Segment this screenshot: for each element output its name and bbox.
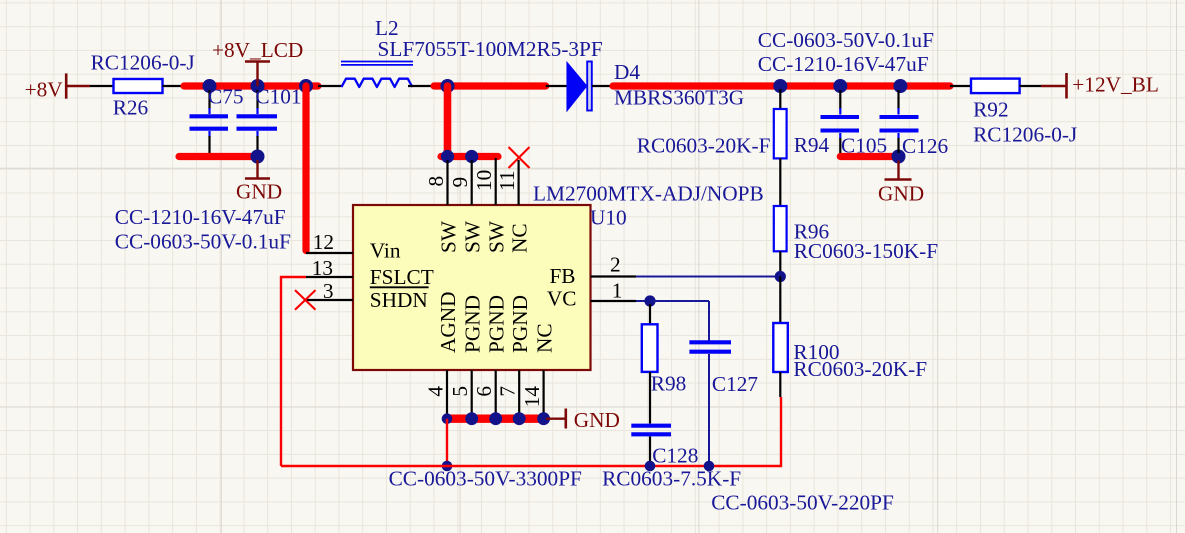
svg-text:11: 11 [495,170,519,191]
pin 11 NC [495,160,519,205]
svg-text:VC: VC [547,287,577,311]
wire FB net [636,276,780,278]
wire [950,85,971,87]
capacitor C128 [631,426,671,466]
junction [489,412,502,425]
capacitor C105 [821,90,860,153]
svg-text:RC0603-7.5K-F: RC0603-7.5K-F [602,467,741,491]
wire [318,85,342,87]
junction [251,79,265,93]
junction [773,79,787,93]
diode D4 [567,62,592,111]
junction [893,79,907,93]
svg-text:RC0603-150K-F: RC0603-150K-F [794,239,939,263]
svg-text:CC-0603-50V-3300PF: CC-0603-50V-3300PF [389,467,582,491]
op-amp U10 LM2700MTX-ADJ/NOPB body [353,205,591,370]
svg-text:CC-0603-50V-0.1uF: CC-0603-50V-0.1uF [758,28,934,52]
svg-text:1: 1 [612,279,623,303]
svg-text:5: 5 [448,386,472,397]
svg-text:3: 3 [323,279,334,303]
svg-text:NC: NC [508,223,532,253]
pin name SHDN with overline [370,287,429,312]
wire [546,85,568,87]
power port +8V_LCD [212,38,303,86]
wire [163,85,185,87]
pin 10 SW [472,158,496,205]
wire [1020,85,1041,87]
junction [513,412,526,425]
wire [779,158,781,206]
junction [441,79,455,93]
svg-text:R98: R98 [651,372,687,396]
wire [649,304,651,324]
svg-text:GND: GND [236,180,282,204]
pin 3 SHDN [306,279,353,303]
svg-text:6: 6 [472,386,496,397]
wire [592,85,613,87]
pin 9 SW [448,160,472,205]
svg-text:C101: C101 [255,85,301,109]
capacitor C75 [190,90,229,153]
wire [779,89,781,109]
power port +8V [25,73,90,101]
pin 8 SW [424,160,448,205]
svg-text:RC1206-0-J: RC1206-0-J [973,123,1077,147]
ground GND [878,161,924,206]
wire VC net [636,300,650,302]
wire cap ground tie [840,153,898,160]
svg-text:8: 8 [424,176,448,187]
svg-text:SW: SW [485,220,509,253]
wire GND net bottom [281,397,781,466]
pin 6 PGND [472,370,496,419]
svg-text:SHDN: SHDN [370,288,428,312]
pin 1 VC [591,279,637,303]
svg-text:RC0603-20K-F: RC0603-20K-F [637,134,771,158]
svg-text:R92: R92 [973,98,1009,122]
svg-text:CC-0603-50V-220PF: CC-0603-50V-220PF [711,491,894,515]
resistor R98 [642,324,658,372]
wire [708,301,710,341]
wire +8V_LCD bus [184,82,318,89]
svg-text:+8V_LCD: +8V_LCD [212,38,303,62]
svg-text:RC1206-0-J: RC1206-0-J [91,51,195,75]
wire [649,372,651,424]
svg-text:10: 10 [472,170,496,191]
svg-text:AGND: AGND [436,291,460,353]
wire GND net to FSLCT [281,277,306,466]
junction [704,461,715,472]
wire +12V bus [613,82,950,89]
pin 4 AGND [424,370,448,419]
wire [779,277,781,324]
svg-text:PGND: PGND [461,295,485,353]
junction [892,150,906,164]
wire SW pin bus [441,153,498,160]
wire [408,85,434,87]
pin 2 FB [591,253,637,277]
junction node FB [775,271,786,282]
svg-text:2: 2 [610,253,621,277]
wire [779,372,781,397]
wire [650,300,709,302]
svg-text:12: 12 [313,230,334,254]
svg-text:NC: NC [533,323,557,353]
no-connect X pin 11 [509,147,530,168]
svg-text:13: 13 [312,256,333,280]
svg-text:FB: FB [549,264,575,288]
svg-text:CC-1210-16V-47uF: CC-1210-16V-47uF [115,205,286,229]
no-connect X pin 3 [295,290,316,310]
capacitor C127 [689,342,731,466]
junction [441,150,454,163]
wire [90,85,114,87]
svg-text:C75: C75 [208,85,244,109]
svg-text:GND: GND [878,182,924,206]
resistor R96 [774,206,787,251]
resistor R92 [971,79,1020,94]
wire SW drop [444,86,452,157]
svg-text:PGND: PGND [508,295,532,353]
svg-text:R26: R26 [113,96,149,120]
svg-text:+8V: +8V [25,78,64,102]
svg-text:GND: GND [574,408,620,432]
pin 7 PGND [496,370,520,419]
junction [645,461,656,472]
junction [442,413,453,424]
junction [537,412,550,425]
svg-text:Vin: Vin [370,239,401,263]
svg-text:CC-0603-50V-0.1uF: CC-0603-50V-0.1uF [115,230,291,254]
svg-text:R94: R94 [794,133,830,157]
svg-text:SW: SW [437,220,461,253]
svg-text:14: 14 [520,386,544,408]
wire cap ground tie [179,153,258,160]
svg-text:C128: C128 [652,444,698,468]
wire PGND bus [447,415,546,423]
junction [442,461,453,472]
junction [465,412,478,425]
pin 5 PGND [448,370,472,419]
pin 12 Vin [306,230,353,254]
svg-text:D4: D4 [614,60,640,84]
svg-text:CC-1210-16V-47uF: CC-1210-16V-47uF [758,52,929,76]
svg-text:PGND: PGND [485,295,509,353]
junction [465,150,478,163]
svg-text:SW: SW [461,220,485,253]
svg-text:U10: U10 [590,206,627,230]
resistor R94 [774,109,787,158]
pin 13 FSLCT [306,256,353,280]
capacitor C126 [880,90,919,153]
svg-text:+12V_BL: +12V_BL [1072,73,1159,97]
svg-text:7: 7 [496,386,520,397]
ground GND power port [546,408,620,432]
svg-text:C126: C126 [902,134,949,158]
inductor L2 [341,62,413,88]
svg-text:9: 9 [448,177,472,188]
junction [644,295,655,306]
wire AGND drop [446,419,448,466]
svg-text:FSLCT: FSLCT [370,265,434,289]
junction [833,79,847,93]
power port +12V_BL [1041,73,1159,99]
junction [299,79,313,93]
wire Vin drop [302,86,309,251]
svg-text:C127: C127 [712,372,759,396]
svg-text:RC0603-20K-F: RC0603-20K-F [793,357,927,381]
ground GND [236,160,282,204]
pin 14 NC [520,370,544,419]
resistor R26 [114,79,163,93]
svg-text:4: 4 [424,386,448,397]
junction [251,150,265,164]
svg-text:SLF7055T-100M2R5-3PF: SLF7055T-100M2R5-3PF [378,37,603,61]
wire SW node [434,82,546,89]
capacitor C101 [237,90,278,153]
resistor R100 [773,323,788,372]
wire [779,251,781,276]
junction [203,79,217,93]
svg-text:LM2700MTX-ADJ/NOPB: LM2700MTX-ADJ/NOPB [533,182,764,206]
